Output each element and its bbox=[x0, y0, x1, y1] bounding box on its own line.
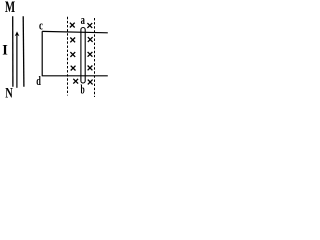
svg-text:c: c bbox=[39, 19, 43, 33]
field cross R5 bbox=[88, 80, 93, 85]
field cross R2 bbox=[88, 37, 93, 42]
current I arrowhead bbox=[15, 31, 20, 36]
wire MN right line bbox=[22, 16, 25, 86]
field cross L5 bbox=[73, 79, 78, 84]
field cross L2 bbox=[70, 38, 75, 43]
left end wire cd bbox=[41, 31, 43, 76]
bottom rail d-b bbox=[42, 75, 108, 77]
field cross R1 bbox=[87, 23, 92, 28]
svg-text:b: b bbox=[81, 84, 85, 97]
field boundary dashed right bbox=[94, 18, 96, 97]
current I arrow shaft bbox=[16, 34, 18, 88]
svg-text:N: N bbox=[5, 84, 13, 101]
top rail c-a bbox=[42, 31, 108, 32]
wire MN left line bbox=[12, 16, 14, 86]
svg-text:a: a bbox=[81, 13, 86, 27]
field cross R4 bbox=[88, 66, 93, 71]
field boundary dashed left bbox=[67, 17, 69, 96]
field cross L4 bbox=[71, 66, 76, 71]
field cross L3 bbox=[70, 52, 75, 57]
field cross R3 bbox=[88, 52, 93, 57]
svg-text:d: d bbox=[36, 74, 41, 88]
field cross L1 bbox=[70, 23, 75, 28]
svg-text:I: I bbox=[2, 42, 8, 58]
svg-text:M: M bbox=[5, 0, 15, 16]
rod ab capsule bbox=[81, 28, 85, 84]
